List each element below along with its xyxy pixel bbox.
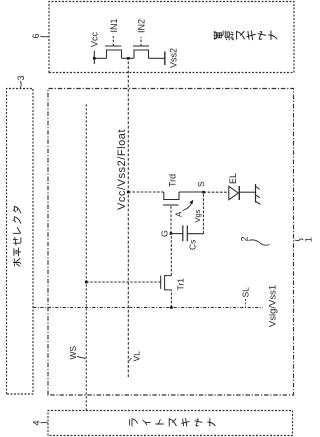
leader for 1 [295, 239, 303, 241]
svg-text:A: A [175, 211, 184, 217]
svg-text:IN1: IN1 [109, 18, 119, 32]
wire to node S [203, 192, 205, 234]
Tr1 hump (channel) [165, 276, 172, 290]
node G dot [170, 232, 173, 235]
title 電源スキャナ (vertical) [214, 30, 278, 40]
wire EL cathode down [240, 191, 256, 193]
baseline middle segment with output node [122, 57, 135, 59]
Tr1 drain wire to node G [170, 233, 172, 275]
arrowhead of A [189, 200, 193, 205]
baseline lower segment [149, 57, 165, 59]
svg-text:4: 4 [32, 420, 42, 425]
svg-text:VL: VL [132, 351, 142, 362]
power line output node dot [127, 57, 130, 60]
horizontal selector block 3 border (水平セレクタ) [7, 89, 34, 395]
wire Cs to S-side [187, 233, 203, 235]
cathode hatch 3 [256, 202, 260, 205]
pixel circuit 2 boundary (dash-dot) [48, 89, 294, 396]
svg-text:Trd: Trd [168, 174, 178, 187]
svg-text:2: 2 [240, 236, 250, 241]
svg-text:EL: EL [228, 173, 238, 184]
svg-text:Vcc/Vss2/Float: Vcc/Vss2/Float [116, 129, 128, 210]
junction dot WS-gate [85, 281, 88, 284]
junction dot Tr1-SL [170, 306, 173, 309]
svg-text:Vss2: Vss2 [169, 48, 179, 68]
cathode hatch 1 [256, 187, 260, 190]
Trd hump (channel) [164, 192, 179, 200]
svg-text:Vcc: Vcc [90, 31, 100, 47]
EL diode triangle [229, 186, 239, 199]
wire G to Cs [171, 233, 183, 235]
scan line WS [85, 104, 87, 411]
write scanner block 4 border (ライトスキャナ) [48, 411, 293, 436]
Trd gate lead to node G [170, 205, 172, 233]
transistor T(IN2) gate lead [140, 37, 142, 46]
leader for SL [245, 299, 247, 307]
Tr1 gate lead to WS [86, 281, 160, 283]
totem baseline upper segment [94, 57, 106, 59]
signal line SL [33, 307, 263, 309]
transistor T(IN2) gate bar [133, 45, 149, 47]
leader for 6 [40, 35, 48, 38]
svg-text:IN2: IN2 [137, 19, 147, 33]
leader for VL [129, 358, 132, 361]
Tr1 source wire to SL [170, 290, 172, 308]
wire S to EL anode [204, 191, 229, 193]
svg-text:WS: WS [68, 345, 78, 359]
Trd drain wire from power line [128, 191, 164, 193]
capacitor Cs plate 2 [186, 225, 188, 241]
title ライトスキャナ (vertical) [130, 418, 216, 427]
cathode hatch 2 [256, 195, 260, 198]
svg-text:Vsig/Vss1: Vsig/Vss1 [268, 285, 279, 327]
leader for 4 [41, 421, 48, 423]
Vcc node dot [93, 57, 96, 60]
node S dot [202, 191, 205, 194]
power scanner block 6 border (電源スキャナ) [49, 2, 294, 73]
transistor T(IN1) hump [107, 50, 122, 58]
transistor T(IN1) gate lead [112, 36, 114, 46]
svg-text:Vgs: Vgs [193, 209, 202, 222]
svg-text:G: G [160, 230, 170, 237]
arrow A (curved) [183, 202, 193, 210]
title 水平セレクタ [13, 207, 21, 267]
capacitor Cs plate 1 [182, 225, 184, 241]
svg-text:1: 1 [304, 237, 314, 242]
Vcc terminal lead [93, 51, 95, 65]
transistor T(IN2) hump [134, 50, 149, 58]
svg-text:6: 6 [31, 33, 41, 38]
Trd gate bar [163, 204, 179, 206]
junction dot Trd-VL [127, 191, 130, 194]
leader for 2 [249, 240, 270, 245]
svg-text:S: S [196, 181, 206, 187]
EL cathode bar [238, 186, 240, 200]
Trd source wire to node S [179, 191, 204, 193]
leader for 3 [19, 81, 22, 88]
svg-text:Tr1: Tr1 [176, 278, 186, 291]
power supply line VL (Vcc/Vss2/Float) [127, 58, 129, 377]
svg-text:SL: SL [241, 287, 251, 298]
Vss2 terminal bar [164, 52, 166, 66]
transistor T(IN1) gate bar [105, 45, 121, 47]
cathode terminal bar [255, 184, 257, 203]
Tr1 gate bar [160, 276, 162, 289]
leader for WS [77, 357, 86, 359]
svg-text:3: 3 [16, 75, 26, 80]
svg-text:Cs: Cs [188, 240, 198, 250]
